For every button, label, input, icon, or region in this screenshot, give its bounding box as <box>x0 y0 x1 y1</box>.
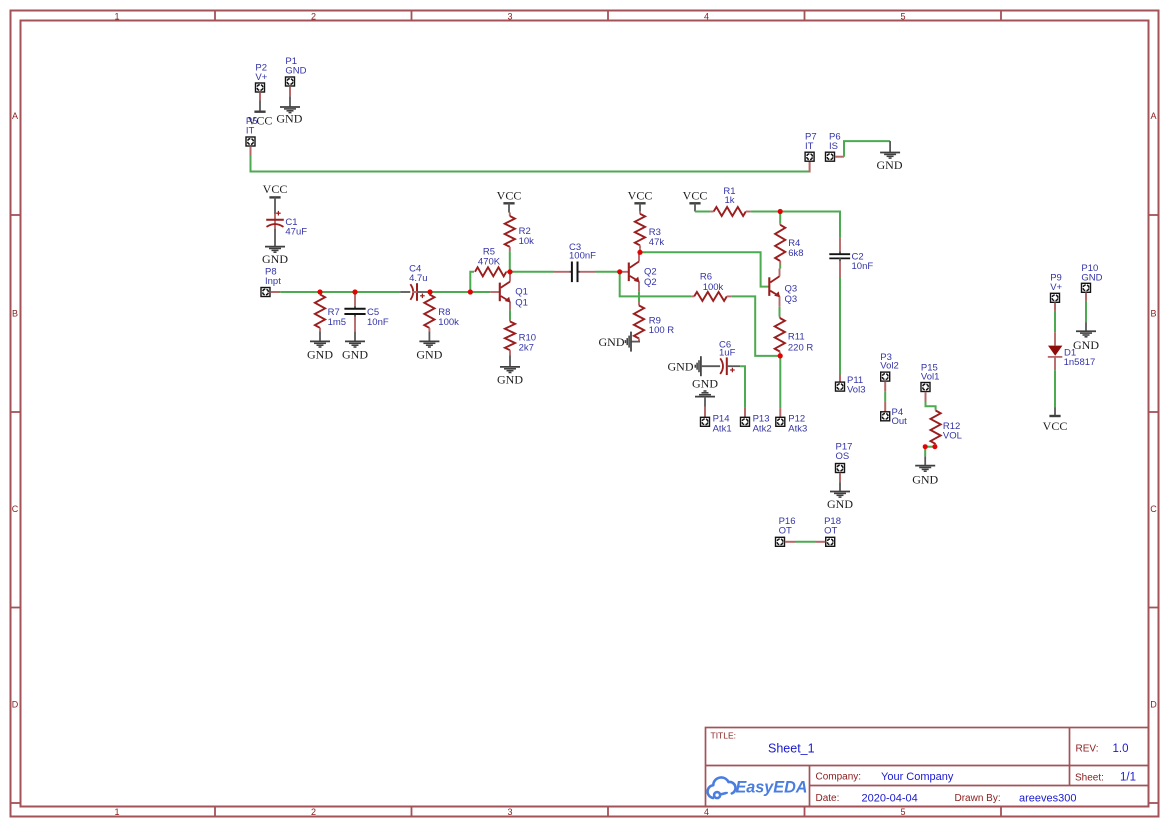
svg-text:V+: V+ <box>1050 282 1062 293</box>
wire R3 to Q2 collector <box>639 249 641 253</box>
svg-text:Date:: Date: <box>816 793 840 804</box>
node junction R1 R4 C2 <box>778 209 783 214</box>
wire R12 bottom jog <box>925 446 935 448</box>
resistor R7 1m5 <box>319 292 321 294</box>
svg-text:Vol3: Vol3 <box>847 385 866 396</box>
svg-text:Company:: Company: <box>816 772 862 783</box>
svg-text:100k: 100k <box>703 282 724 293</box>
wire R2 to Q1 collector <box>509 251 511 271</box>
svg-text:VOL: VOL <box>943 431 962 442</box>
ground symbol at R9 sideways <box>631 341 640 343</box>
wire net IT long run <box>251 156 810 172</box>
svg-text:10nF: 10nF <box>852 261 874 272</box>
svg-text:GND: GND <box>262 252 288 266</box>
pin P2 <box>256 83 265 92</box>
svg-text:GND: GND <box>416 347 442 361</box>
resistor R11 220 R <box>779 317 781 319</box>
wire R4 top leg <box>779 212 781 224</box>
wire D1 to VCC <box>1054 370 1056 407</box>
resistor R8 100k <box>428 292 430 294</box>
title block outline <box>706 728 1149 807</box>
EasyEDA logo <box>708 777 736 798</box>
svg-text:Drawn By:: Drawn By: <box>955 793 1001 804</box>
svg-text:GND: GND <box>307 347 333 361</box>
pin P9 <box>1051 293 1060 302</box>
svg-text:GND: GND <box>692 377 718 391</box>
node junction at R5 left <box>468 289 473 294</box>
wire C3 to Q2 base <box>595 271 620 273</box>
node junction Q1 collector <box>507 269 512 274</box>
resistor R4 6k8 <box>779 223 781 225</box>
svg-text:GND: GND <box>276 112 302 126</box>
svg-text:IT: IT <box>805 141 814 152</box>
ground symbol at C5 <box>354 331 356 341</box>
node junction at R7 <box>317 289 322 294</box>
pin P3 <box>881 372 890 381</box>
ground symbol at C1 <box>274 229 276 247</box>
svg-text:Atk2: Atk2 <box>753 424 772 435</box>
capacitor C2 10nF <box>839 237 841 251</box>
svg-text:R11: R11 <box>788 332 805 343</box>
svg-text:GND: GND <box>497 372 523 386</box>
svg-text:10nF: 10nF <box>367 317 389 328</box>
pin P12 <box>776 417 785 426</box>
svg-text:100k: 100k <box>438 317 459 328</box>
wire pin P5 stub <box>250 146 252 156</box>
resistor R1 1k <box>710 211 713 213</box>
svg-text:4.7u: 4.7u <box>409 273 428 284</box>
ground symbol at R7 <box>319 331 321 341</box>
frame row ticks left <box>11 214 21 216</box>
svg-text:2: 2 <box>311 12 316 22</box>
wire VCC to R1 <box>695 211 710 213</box>
transistor Q2 <box>629 252 639 291</box>
svg-text:GND: GND <box>599 335 625 349</box>
svg-text:GND: GND <box>342 347 368 361</box>
power VCC symbol at D1 inverted <box>1054 407 1056 416</box>
svg-text:Inpt: Inpt <box>265 276 281 287</box>
svg-text:47uF: 47uF <box>285 227 307 238</box>
svg-text:GND: GND <box>1073 338 1099 352</box>
wire P15 to R12 <box>926 402 936 409</box>
svg-text:IT: IT <box>246 126 255 137</box>
svg-text:1/1: 1/1 <box>1120 772 1136 784</box>
wire Q2 base stub <box>620 271 628 273</box>
svg-text:2k7: 2k7 <box>519 342 534 353</box>
transistor Q3 <box>769 269 779 307</box>
wire Q2 base to R6 feedback <box>620 272 692 297</box>
capacitor C4 4.7u polarized <box>400 291 410 293</box>
svg-text:GND: GND <box>1081 273 1102 284</box>
pin P17 <box>836 464 845 473</box>
frame column ticks top <box>214 11 216 21</box>
svg-text:VCC: VCC <box>683 189 708 203</box>
wire pin P1 stub <box>289 86 291 96</box>
svg-text:1uF: 1uF <box>719 347 736 358</box>
transistor Q1 <box>500 272 510 311</box>
svg-text:VCC: VCC <box>628 189 653 203</box>
svg-text:100nF: 100nF <box>569 251 596 262</box>
wire net IS <box>844 141 890 157</box>
svg-text:Q2: Q2 <box>644 277 657 288</box>
pin P7 <box>805 152 814 161</box>
svg-text:Vol2: Vol2 <box>880 361 899 372</box>
pin P15 <box>921 383 930 392</box>
pin P1 <box>286 77 295 86</box>
wire Q2 emitter to R9 <box>638 291 640 302</box>
pin P13 <box>741 417 750 426</box>
wire node to C2 <box>780 212 840 238</box>
svg-text:C: C <box>12 504 19 514</box>
resistor R9 100 R <box>638 302 640 306</box>
diode D1 1n5817 <box>1054 332 1056 345</box>
svg-text:3: 3 <box>507 12 512 22</box>
wire P16 to P18 <box>785 541 796 543</box>
node junction R12 bottom right <box>932 444 937 449</box>
wire R4 to Q3 collector <box>779 265 781 269</box>
ground symbol at P17 <box>839 482 841 491</box>
resistor R6 100k <box>691 295 694 297</box>
svg-text:220 R: 220 R <box>788 343 813 354</box>
wire R12 to ground <box>924 447 926 457</box>
svg-text:VCC: VCC <box>1043 419 1068 433</box>
svg-text:OS: OS <box>836 451 850 462</box>
svg-text:V+: V+ <box>255 72 267 83</box>
ground symbol at R8 <box>428 331 430 341</box>
pin P16 <box>776 537 785 546</box>
svg-text:Out: Out <box>892 416 908 427</box>
wire pin P6 stub <box>835 156 844 158</box>
svg-text:5: 5 <box>900 12 905 22</box>
wire Q1 emitter to R10 <box>509 310 511 320</box>
svg-text:Atk1: Atk1 <box>713 424 732 435</box>
svg-text:B: B <box>12 309 18 319</box>
wire pin P14 stub <box>704 397 706 407</box>
wire pin P13 stub <box>744 407 746 417</box>
svg-text:1m5: 1m5 <box>328 317 346 328</box>
svg-text:D: D <box>1150 700 1157 710</box>
ground symbol at P10 <box>1085 322 1087 331</box>
node junction at C5 <box>352 289 357 294</box>
svg-text:A: A <box>1150 111 1156 121</box>
svg-text:2: 2 <box>311 807 316 817</box>
wire pin P11 stub <box>839 375 841 383</box>
capacitor C1 47uF polarized <box>274 214 276 229</box>
pin P11 <box>836 382 845 391</box>
svg-text:100 R: 100 R <box>649 325 674 336</box>
wire P10 to ground <box>1085 301 1087 322</box>
wire node to P12 <box>779 356 781 408</box>
svg-text:1.0: 1.0 <box>1113 743 1129 755</box>
svg-text:2020-04-04: 2020-04-04 <box>862 793 918 805</box>
svg-text:Q2: Q2 <box>644 266 657 277</box>
svg-text:Atk3: Atk3 <box>788 424 807 435</box>
capacitor C5 10nF <box>354 292 356 306</box>
wire pin P4 stub <box>884 402 886 412</box>
node junction Q2 base <box>617 269 622 274</box>
svg-text:GND: GND <box>912 473 938 487</box>
wire pin P17 stub <box>839 473 841 482</box>
pin P6 <box>826 152 835 161</box>
svg-text:1: 1 <box>114 12 119 22</box>
node junction Q2 collector <box>637 250 642 255</box>
svg-text:Q3: Q3 <box>785 283 798 294</box>
wire R5 left leg <box>470 272 474 292</box>
svg-text:GND: GND <box>877 158 903 172</box>
svg-text:1n5817: 1n5817 <box>1064 357 1096 368</box>
svg-text:A: A <box>12 111 18 121</box>
wire C6 to P13 <box>740 366 745 407</box>
svg-text:470K: 470K <box>478 256 501 267</box>
svg-text:1k: 1k <box>724 195 734 206</box>
wire R1 to node <box>751 211 781 213</box>
svg-text:areeves300: areeves300 <box>1019 793 1077 805</box>
svg-text:B: B <box>1150 309 1156 319</box>
svg-text:47k: 47k <box>649 237 665 248</box>
resistor R12 VOL <box>935 409 937 410</box>
svg-text:6k8: 6k8 <box>788 248 803 259</box>
ground symbol at R12 <box>924 456 926 465</box>
wire input net to C4 <box>280 291 400 293</box>
node junction at R8 <box>427 289 432 294</box>
svg-text:1: 1 <box>114 807 119 817</box>
wire P3 to P4 <box>884 392 886 402</box>
svg-text:C: C <box>1150 504 1157 514</box>
svg-text:VCC: VCC <box>263 182 288 196</box>
wire pin P8 stub <box>270 291 280 293</box>
svg-text:Q3: Q3 <box>785 294 798 305</box>
svg-text:VCC: VCC <box>497 189 522 203</box>
pin P4 <box>881 412 890 421</box>
svg-text:TITLE:: TITLE: <box>711 731 737 741</box>
pin P8 <box>261 288 270 297</box>
capacitor C3 100nF <box>554 271 569 273</box>
pin P10 <box>1082 283 1091 292</box>
node junction R12 bottom left <box>923 444 928 449</box>
node junction R11 bottom <box>778 353 783 358</box>
svg-text:Vol1: Vol1 <box>921 371 940 382</box>
svg-text:Sheet_1: Sheet_1 <box>768 742 815 756</box>
svg-text:Your Company: Your Company <box>881 771 954 783</box>
pin P5 <box>246 137 255 146</box>
wire pin P9 stub <box>1054 303 1056 311</box>
wire P9 to D1 <box>1054 311 1056 332</box>
svg-text:OT: OT <box>779 526 792 537</box>
wire pin P2 stub <box>259 92 261 100</box>
resistor R10 2k7 <box>509 320 511 322</box>
svg-text:EasyEDA: EasyEDA <box>736 779 808 797</box>
svg-text:OT: OT <box>824 526 837 537</box>
power VCC symbol at P2 <box>259 101 261 112</box>
svg-text:Q1: Q1 <box>515 287 528 298</box>
wire input net to Q1 base <box>430 291 490 293</box>
resistor R2 10k <box>509 213 511 217</box>
pin P14 <box>701 417 710 426</box>
svg-text:Sheet:: Sheet: <box>1075 773 1104 784</box>
svg-text:3: 3 <box>507 807 512 817</box>
wire pin P3 stub <box>884 381 886 391</box>
wire pin P15 stub <box>925 392 927 402</box>
wire Q2 collector to Q3 base <box>640 252 769 286</box>
svg-text:5: 5 <box>900 807 905 817</box>
svg-text:REV:: REV: <box>1076 744 1099 755</box>
wire C2 to P11 <box>839 277 841 375</box>
ground symbol at P1 <box>289 96 291 107</box>
capacitor C6 1uF polarized <box>701 365 720 367</box>
svg-text:4: 4 <box>704 807 709 817</box>
resistor R5 470K <box>475 267 506 276</box>
resistor R3 47k <box>639 211 641 214</box>
frame column ticks bottom <box>214 807 216 817</box>
pin P18 <box>826 537 835 546</box>
ground symbol at R10 <box>509 356 511 367</box>
svg-text:Q1: Q1 <box>515 297 528 308</box>
wire R6 to R11 node <box>731 296 780 356</box>
wire pin P10 stub <box>1085 293 1087 301</box>
svg-text:GND: GND <box>827 497 853 511</box>
wire pin P12 stub <box>779 408 781 417</box>
svg-text:10k: 10k <box>519 236 535 247</box>
wire Q1 collector to C3 <box>510 271 554 273</box>
ground symbol at P6 <box>889 141 891 152</box>
svg-text:4: 4 <box>704 12 709 22</box>
svg-text:D: D <box>12 700 19 710</box>
frame row ticks right <box>1149 214 1159 216</box>
wire Q3 emitter to R11 <box>779 307 781 317</box>
svg-text:GND: GND <box>285 66 306 77</box>
wire Q1 base stub <box>490 291 499 293</box>
svg-text:GND: GND <box>668 360 694 374</box>
wire pin P7 stub <box>809 162 811 173</box>
svg-text:IS: IS <box>829 141 838 152</box>
